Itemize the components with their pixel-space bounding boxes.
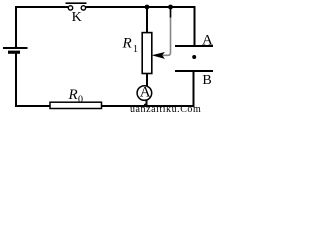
wire: plate B down to bottom wire <box>193 71 195 106</box>
svg-text:0: 0 <box>78 94 83 105</box>
svg-text:R: R <box>122 36 132 52</box>
svg-text:uanzaitiku.Com: uanzaitiku.Com <box>130 104 201 115</box>
node: junction at ammeter bottom <box>144 104 147 107</box>
wire: bottom-left segment (R0 to battery -) <box>16 53 50 106</box>
node: junction dot at slider branch <box>168 5 173 10</box>
wire: R1 top lead <box>146 7 148 33</box>
svg-text:K: K <box>72 10 82 25</box>
oil drop between plates <box>192 55 196 59</box>
switch K blade <box>66 2 87 4</box>
switch K left contact <box>68 6 72 10</box>
wire: ammeter to bottom wire <box>146 100 148 106</box>
rheostat R1 slider arrowhead <box>152 52 165 59</box>
wire: top-left segment (battery + up and across to switch) <box>16 7 68 48</box>
resistor R1 body (rheostat) <box>142 33 152 74</box>
resistor R0 body <box>50 102 102 108</box>
plate B (lower capacitor plate) <box>175 70 213 72</box>
svg-text:A: A <box>202 32 213 48</box>
svg-text:B: B <box>202 73 211 88</box>
rheostat R1 slider wire (gray) <box>170 8 172 18</box>
battery: positive plate (long) <box>3 47 28 49</box>
plate A (upper capacitor plate) <box>175 45 213 47</box>
wire: R1 bottom lead to ammeter <box>146 74 148 87</box>
svg-text:R: R <box>68 87 78 103</box>
svg-text:A: A <box>140 85 151 101</box>
svg-text:1: 1 <box>133 44 138 55</box>
wire: bottom segment right of R0 <box>102 105 195 107</box>
switch K right contact <box>81 6 85 10</box>
ammeter A (circle) <box>137 86 152 101</box>
battery: negative plate (short thick) <box>8 51 20 54</box>
node: junction dot at R1 branch <box>145 5 150 10</box>
wire: top-right segment (switch to top-right corner) <box>86 6 196 8</box>
wire: right vertical down to plate A <box>194 6 196 46</box>
